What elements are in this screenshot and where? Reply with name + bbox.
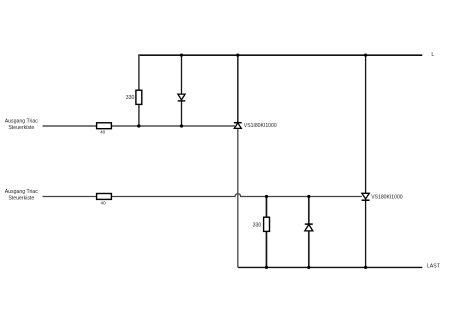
svg-text:40: 40: [101, 200, 107, 205]
wire vertical branch 330 top: [138, 55, 140, 126]
node top bus / D1 branch: [180, 54, 183, 57]
svg-text:VS180KI1000: VS180KI1000: [371, 194, 403, 200]
node top bus / V4 branch: [364, 54, 367, 57]
varistor D2 VS1I80KI1000 (cathode up): [234, 123, 277, 129]
resistor R2 40 (input 2): [97, 194, 112, 206]
svg-text:330: 330: [253, 223, 262, 229]
resistor R3 330 (top section): [126, 90, 142, 104]
svg-text:330: 330: [126, 95, 135, 101]
wire vertical V4 (bus to varistor D4 to bottom bus): [365, 55, 367, 268]
svg-text:Ausgang Triac: Ausgang Triac: [5, 189, 39, 195]
svg-text:LAST: LAST: [427, 264, 441, 270]
node input1 / D1 branch: [180, 124, 183, 127]
resistor R1 40 (input 1): [97, 123, 112, 135]
wire input 2 middle segment with hop over vertical: [111, 194, 362, 197]
label input 1 Ausgang Triac Steuerkiste: [5, 119, 39, 132]
svg-text:Steuerkiste: Steuerkiste: [8, 196, 34, 202]
wire vertical V3 upper (bus to varistor D2): [237, 55, 239, 123]
svg-text:Ausgang Triac: Ausgang Triac: [5, 119, 39, 125]
wire vertical V3 lower (varistor D2 to bottom bus): [237, 128, 239, 267]
node bottom bus / D3 branch: [307, 266, 310, 269]
varistor D4 VS180KI1000 (cathode down): [362, 193, 403, 200]
node input1 / 330 branch: [137, 124, 140, 127]
wire vertical branch diode D3: [308, 197, 310, 268]
node input2 / D3 branch: [307, 195, 310, 198]
label input 2 Ausgang Triac Steuerkiste: [5, 189, 39, 202]
wire input 1 left segment: [43, 125, 97, 127]
svg-text:40: 40: [100, 130, 106, 135]
svg-text:Steuerkiste: Steuerkiste: [8, 125, 34, 131]
wire vertical branch 330 bottom: [265, 197, 267, 268]
wire top bus L: [138, 54, 422, 56]
svg-text:VS1I80KI1000: VS1I80KI1000: [244, 123, 277, 129]
node input2 / 330 bottom branch: [265, 195, 268, 198]
diode D1 (top section, cathode down): [178, 94, 186, 101]
diode D3 (bottom section, cathode up): [305, 224, 313, 231]
wire bottom bus LAST: [238, 266, 422, 268]
wire input 1 right segment: [111, 125, 234, 127]
wire vertical branch diode D1: [181, 55, 183, 126]
wire input 2 left segment: [43, 196, 97, 198]
node top bus / V3 branch: [236, 54, 239, 57]
node bottom bus / 330 branch: [265, 266, 268, 269]
node bottom bus / V4 branch: [364, 266, 367, 269]
resistor R4 330 (bottom section): [253, 217, 270, 231]
svg-text:L: L: [431, 52, 434, 58]
